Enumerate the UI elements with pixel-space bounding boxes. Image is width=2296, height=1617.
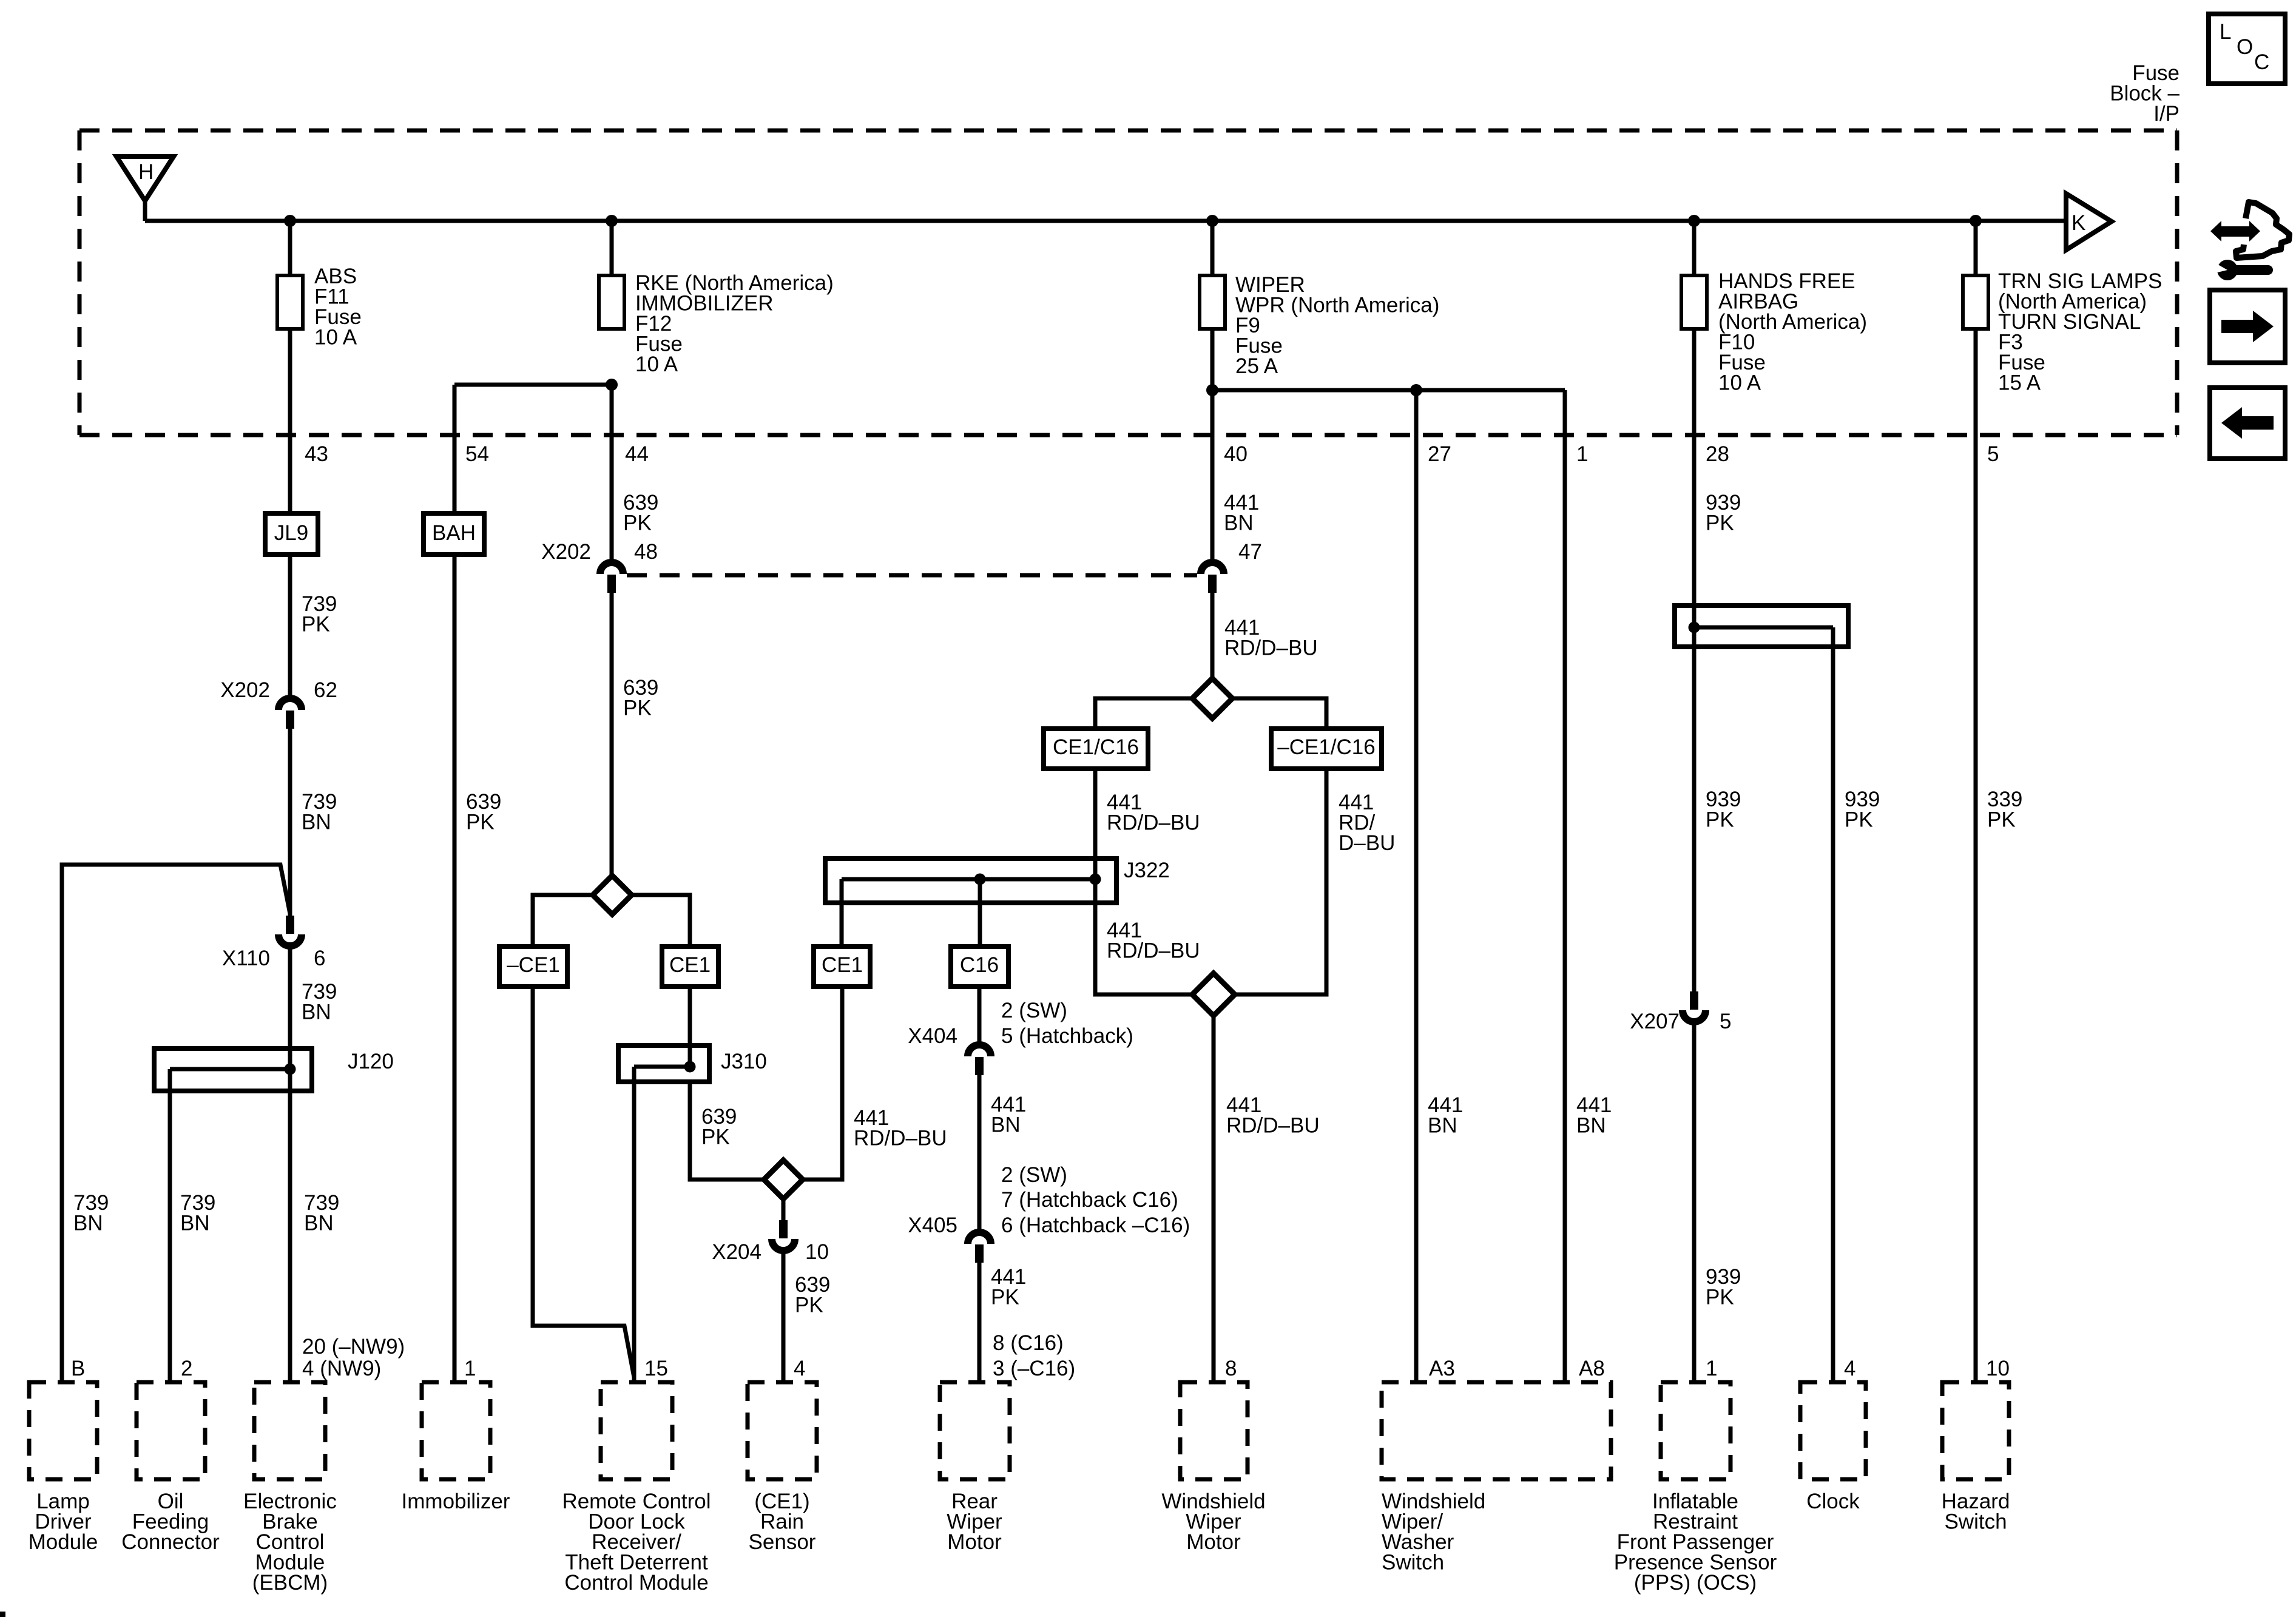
svg-text:JL9: JL9 [274,521,308,545]
wire JL9 to X202 pin 62, 739 PK [288,555,292,698]
svg-text:1: 1 [464,1357,476,1380]
svg-text:X404: X404 [908,1024,957,1048]
option box BAH [424,513,484,555]
svg-text:4 (NW9): 4 (NW9) [302,1357,381,1380]
wire F9 junction horizontal to pins 27 and 1 [1212,388,1565,393]
svg-text:2 (SW): 2 (SW) [1001,1163,1067,1187]
svg-text:–CE1: –CE1 [507,953,560,977]
svg-text:RD/D–BU: RD/D–BU [854,1127,947,1150]
wire F12 to X202 pin 48, pin 44, 639 PK [610,385,614,562]
right arrow navigation icon [2210,290,2285,363]
svg-text:10 A: 10 A [635,353,678,376]
svg-text:PK: PK [1845,808,1873,832]
wire splice to X207, 939 PK [1692,627,1697,991]
K triangle [2066,194,2112,250]
svg-text:BN: BN [180,1212,210,1235]
option box JL9 [265,513,318,555]
wire J120 to Oil Feeding Connector pin 2, 739 BN [168,1069,172,1382]
svg-text:C16: C16 [960,953,999,977]
svg-text:J322: J322 [1124,859,1170,882]
wire splice to Clock pin 4, 939 PK [1831,627,1835,1382]
svg-text:8: 8 [1225,1357,1237,1380]
connector X207 pin 5 [1630,991,1731,1033]
wire fuse F3 to Hazard Switch pin 10, 339 PK [1974,329,1978,1382]
module box Rear Wiper Motor [940,1382,1010,1554]
wire fuse F11 to JL9 option box, pin 43 [288,329,292,513]
svg-text:8 (C16): 8 (C16) [993,1331,1064,1355]
svg-text:B: B [71,1357,85,1380]
svg-text:PK: PK [1706,511,1734,535]
LOC reference box icon [2209,14,2285,84]
svg-text:D–BU: D–BU [1339,831,1395,855]
fuse F3 TRN SIG LAMPS [1963,269,2162,395]
option merge diamond wiper motor [1192,973,1235,1016]
fuse F11 ABS [277,265,362,349]
svg-text:A8: A8 [1579,1357,1605,1380]
svg-text:CE1: CE1 [669,953,711,977]
svg-text:1: 1 [1576,442,1588,466]
service hand and wrench icon [2210,202,2289,280]
wire X405 to Rear Wiper Motor pin 8/3, 441 PK [977,1263,982,1382]
svg-text:Clock: Clock [1806,1490,1860,1513]
svg-text:Module: Module [29,1530,98,1554]
option box CE1 (RKE column) [662,947,718,987]
svg-text:BN: BN [73,1212,103,1235]
wire -CE1/C16 down to merge diamond, 441 RD/ D-BU [1235,769,1326,994]
svg-text:BAH: BAH [432,521,476,545]
module box Hazard Switch [1942,1382,2010,1534]
svg-text:10 A: 10 A [1718,371,1761,395]
wire pin 40 down to X202-47, 441 BN [1210,329,1215,562]
wire -CE1 down and over to pin 15 [533,987,634,1377]
svg-text:H: H [138,160,154,184]
wire Lamp Driver Module pin B branch, 739 BN [62,865,290,1382]
connector X202 pin 48 [541,540,658,593]
svg-text:BN: BN [302,1001,331,1024]
svg-text:C: C [2254,50,2269,74]
option box -CE1 [499,947,567,987]
svg-text:Motor: Motor [1186,1530,1241,1554]
svg-text:PK: PK [302,613,330,636]
node junction dot WIPER feed [1206,215,1218,227]
wire F12 junction to BAH branch [454,383,612,387]
wire pin 27 to washer switch A3, 441 BN [1414,390,1419,1384]
svg-text:47: 47 [1238,540,1262,564]
svg-text:WPR (North America): WPR (North America) [1235,294,1439,317]
junction dot J120 [285,1064,296,1075]
svg-text:43: 43 [305,442,328,466]
module box (CE1) Rain Sensor [748,1382,817,1554]
dashed wire X202-48 to X202-47 link [627,573,1197,578]
splice J120 box [154,1048,394,1091]
option box CE1 (wiper column) [814,947,870,987]
junction dot below fuse F9 [1206,384,1218,396]
node junction dot RKE feed [606,215,618,227]
junction dot pin 27 branch [1410,384,1422,396]
svg-text:X204: X204 [712,1240,761,1264]
left arrow navigation icon [2210,388,2285,459]
wire C16 down to X404 [977,987,982,1045]
svg-text:Immobilizer: Immobilizer [402,1490,510,1513]
wire J322 middle leg to C16 box [978,879,982,947]
wire fuse F10 down to splice box, pin 28, 939 PK [1692,329,1697,627]
svg-text:RD/D–BU: RD/D–BU [1107,939,1200,963]
option box C16 [951,947,1008,987]
svg-text:PK: PK [623,511,652,535]
svg-text:BN: BN [991,1113,1021,1137]
svg-text:Switch: Switch [1944,1510,2007,1534]
fuse F10 HANDS FREE/AIRBAG [1681,269,1867,395]
connector X202 pin 62 [220,678,337,729]
option split diamond RKE [533,876,690,947]
svg-text:BN: BN [1576,1114,1606,1138]
wire merge diamond to Windshield Wiper Motor pin 8, 441 RD/D-BU [1212,1016,1216,1382]
svg-text:15 A: 15 A [1998,371,2041,395]
svg-text:62: 62 [314,678,337,702]
wire X202-48 down to option diamond, 639 PK [610,593,614,876]
svg-text:I/P: I/P [2153,102,2180,126]
connector X404 pin 2/5 [908,999,1133,1075]
svg-text:2: 2 [181,1357,192,1380]
module box Lamp Driver Module [29,1382,98,1554]
svg-text:PK: PK [1987,808,2016,832]
svg-text:K: K [2071,211,2085,235]
svg-text:48: 48 [634,540,658,564]
svg-text:40: 40 [1224,442,1248,466]
svg-text:X202: X202 [220,678,270,702]
svg-text:PK: PK [1706,1286,1734,1309]
bus wire (battery feed) [145,219,2068,223]
svg-text:J120: J120 [348,1050,394,1073]
wire bus to fuse F10 [1692,221,1697,275]
svg-text:20 (–NW9): 20 (–NW9) [302,1335,405,1359]
svg-text:6 (Hatchback –C16): 6 (Hatchback –C16) [1001,1214,1190,1237]
wire from H to bus [143,201,147,221]
wire J310 right leg down, 639 PK [690,1082,764,1180]
svg-text:(PPS) (OCS): (PPS) (OCS) [1634,1571,1757,1595]
svg-text:PK: PK [795,1294,823,1317]
svg-text:(EBCM): (EBCM) [252,1571,328,1595]
module box EBCM [243,1382,337,1595]
svg-text:J310: J310 [721,1050,767,1073]
svg-text:3 (–C16): 3 (–C16) [993,1357,1075,1380]
wire diamond to X204 [782,1199,786,1220]
module box Windshield Wiper/Washer Switch [1382,1382,1611,1575]
svg-text:4: 4 [794,1357,805,1380]
wire bus to fuse F12 [610,221,614,275]
fuse block I/P dashed outline box [79,130,2177,435]
wire CE1 down to J310 splice [688,987,692,1067]
module box Immobilizer [402,1382,510,1513]
splice box hands free [1675,606,1848,647]
node junction dot TRN SIG feed [1970,215,1982,227]
svg-text:RD/D–BU: RD/D–BU [1224,636,1318,660]
svg-text:PK: PK [1706,808,1734,832]
svg-text:–CE1/C16: –CE1/C16 [1277,735,1375,759]
svg-text:BN: BN [1224,511,1254,535]
wire bus to fuse F3 [1974,221,1978,275]
svg-text:L: L [2220,20,2231,44]
fuse F12 RKE/IMMOBILIZER [599,271,834,376]
svg-text:PK: PK [701,1126,730,1149]
svg-text:7 (Hatchback C16): 7 (Hatchback C16) [1001,1188,1178,1212]
svg-text:X110: X110 [222,947,270,970]
svg-text:PK: PK [623,697,652,720]
connector X202 pin 47 [1201,540,1262,593]
label Fuse Block - I/P [2110,61,2180,126]
svg-text:X207: X207 [1630,1010,1680,1033]
svg-text:Switch: Switch [1382,1551,1444,1575]
svg-text:CE1/C16: CE1/C16 [1053,735,1139,759]
wire CE1/C16 down through J322, 441 RD/D-BU [1095,769,1192,994]
connector X204 pin 10 [712,1220,829,1264]
module box Remote Control Door Lock Receiver [562,1382,711,1595]
connector X405 pin 2/7/6 [908,1163,1190,1263]
svg-text:PK: PK [466,811,495,834]
option merge diamond rain sensor [764,1160,803,1199]
fuse F9 WIPER [1200,273,1439,378]
module box Windshield Wiper Motor [1161,1382,1265,1554]
splice J310 box [618,1045,767,1082]
junction dot J322 at C16 leg [974,874,986,885]
svg-text:BN: BN [304,1212,334,1235]
svg-text:27: 27 [1428,442,1451,466]
svg-text:25 A: 25 A [1235,354,1278,378]
svg-text:1: 1 [1706,1357,1717,1380]
wire J310 to Remote Control Door Lock pin 15 [632,1067,636,1382]
wire bus to fuse F9 [1210,221,1215,275]
option box -CE1/C16 [1271,729,1382,769]
wire J120 to EBCM pin 20/4, 739 BN [288,1069,292,1382]
svg-text:PK: PK [991,1286,1019,1309]
svg-text:O: O [2237,35,2253,59]
splice J322 box [825,859,1170,903]
svg-text:Connector: Connector [121,1530,220,1554]
wire CE1 (wiper) down to rain diamond, 441 RD/D-BU [803,987,842,1180]
wire X204 to Rain Sensor pin 4, 639 PK [782,1251,786,1382]
module box Inflatable Restraint PPS [1614,1382,1777,1595]
svg-text:4: 4 [1844,1357,1855,1380]
wire X202-47 to wiper split diamond, 441 RD/D-BU [1210,593,1215,679]
svg-text:RD/D–BU: RD/D–BU [1107,811,1200,835]
wire BAH to Immobilizer pin 1, 639 PK [453,555,457,1382]
svg-text:Control Module: Control Module [564,1571,708,1595]
svg-text:44: 44 [625,442,649,466]
svg-text:10: 10 [805,1240,829,1264]
junction dot splice [1689,622,1700,633]
svg-text:2 (SW): 2 (SW) [1001,999,1067,1022]
svg-text:15: 15 [644,1357,668,1380]
svg-text:5 (Hatchback): 5 (Hatchback) [1001,1024,1133,1048]
module box Oil Feeding Connector [121,1382,220,1554]
junction dot below fuse F12 [606,379,618,391]
svg-text:CE1: CE1 [822,953,863,977]
wire X404 to X405, 441 BN [977,1075,982,1232]
svg-text:BN: BN [1428,1114,1457,1138]
wire X202-62 to X110 pin 6, 739 BN [288,729,292,916]
svg-text:X405: X405 [908,1214,957,1237]
connector H triangle [116,157,174,201]
node junction dot HANDS FREE feed [1688,215,1700,227]
svg-text:28: 28 [1706,442,1729,466]
svg-text:6: 6 [314,947,325,970]
svg-text:5: 5 [1987,442,1999,466]
svg-text:10 A: 10 A [314,326,357,349]
wire J322 left leg to CE1 box [840,879,844,947]
wire down to BAH box, pin 54 [453,385,457,513]
wire bus to fuse F11 [288,221,292,275]
svg-text:10: 10 [1986,1357,2010,1380]
svg-text:X202: X202 [541,540,591,564]
svg-text:54: 54 [465,442,489,466]
junction dot J310 [684,1061,696,1073]
wire pin 1 to washer switch A8, 441 BN [1563,390,1567,1384]
wire X110 to J120 splice, 739 BN [288,946,292,1069]
page corner mark [0,1612,5,1617]
svg-text:A3: A3 [1429,1357,1455,1380]
svg-text:5: 5 [1720,1010,1731,1033]
module box Clock [1800,1382,1866,1513]
svg-text:Sensor: Sensor [749,1530,816,1554]
wire X207 to PPS pin 1, 939 PK [1692,1022,1697,1382]
svg-text:Motor: Motor [947,1530,1002,1554]
junction dot J322 at main wire [1090,874,1101,885]
svg-text:RD/D–BU: RD/D–BU [1226,1114,1320,1138]
connector X110 pin 6 [222,916,326,970]
option split diamond wiper [1095,678,1326,729]
option box CE1/C16 [1044,729,1148,769]
node junction dot ABS feed [284,215,296,227]
svg-text:BN: BN [302,811,331,834]
